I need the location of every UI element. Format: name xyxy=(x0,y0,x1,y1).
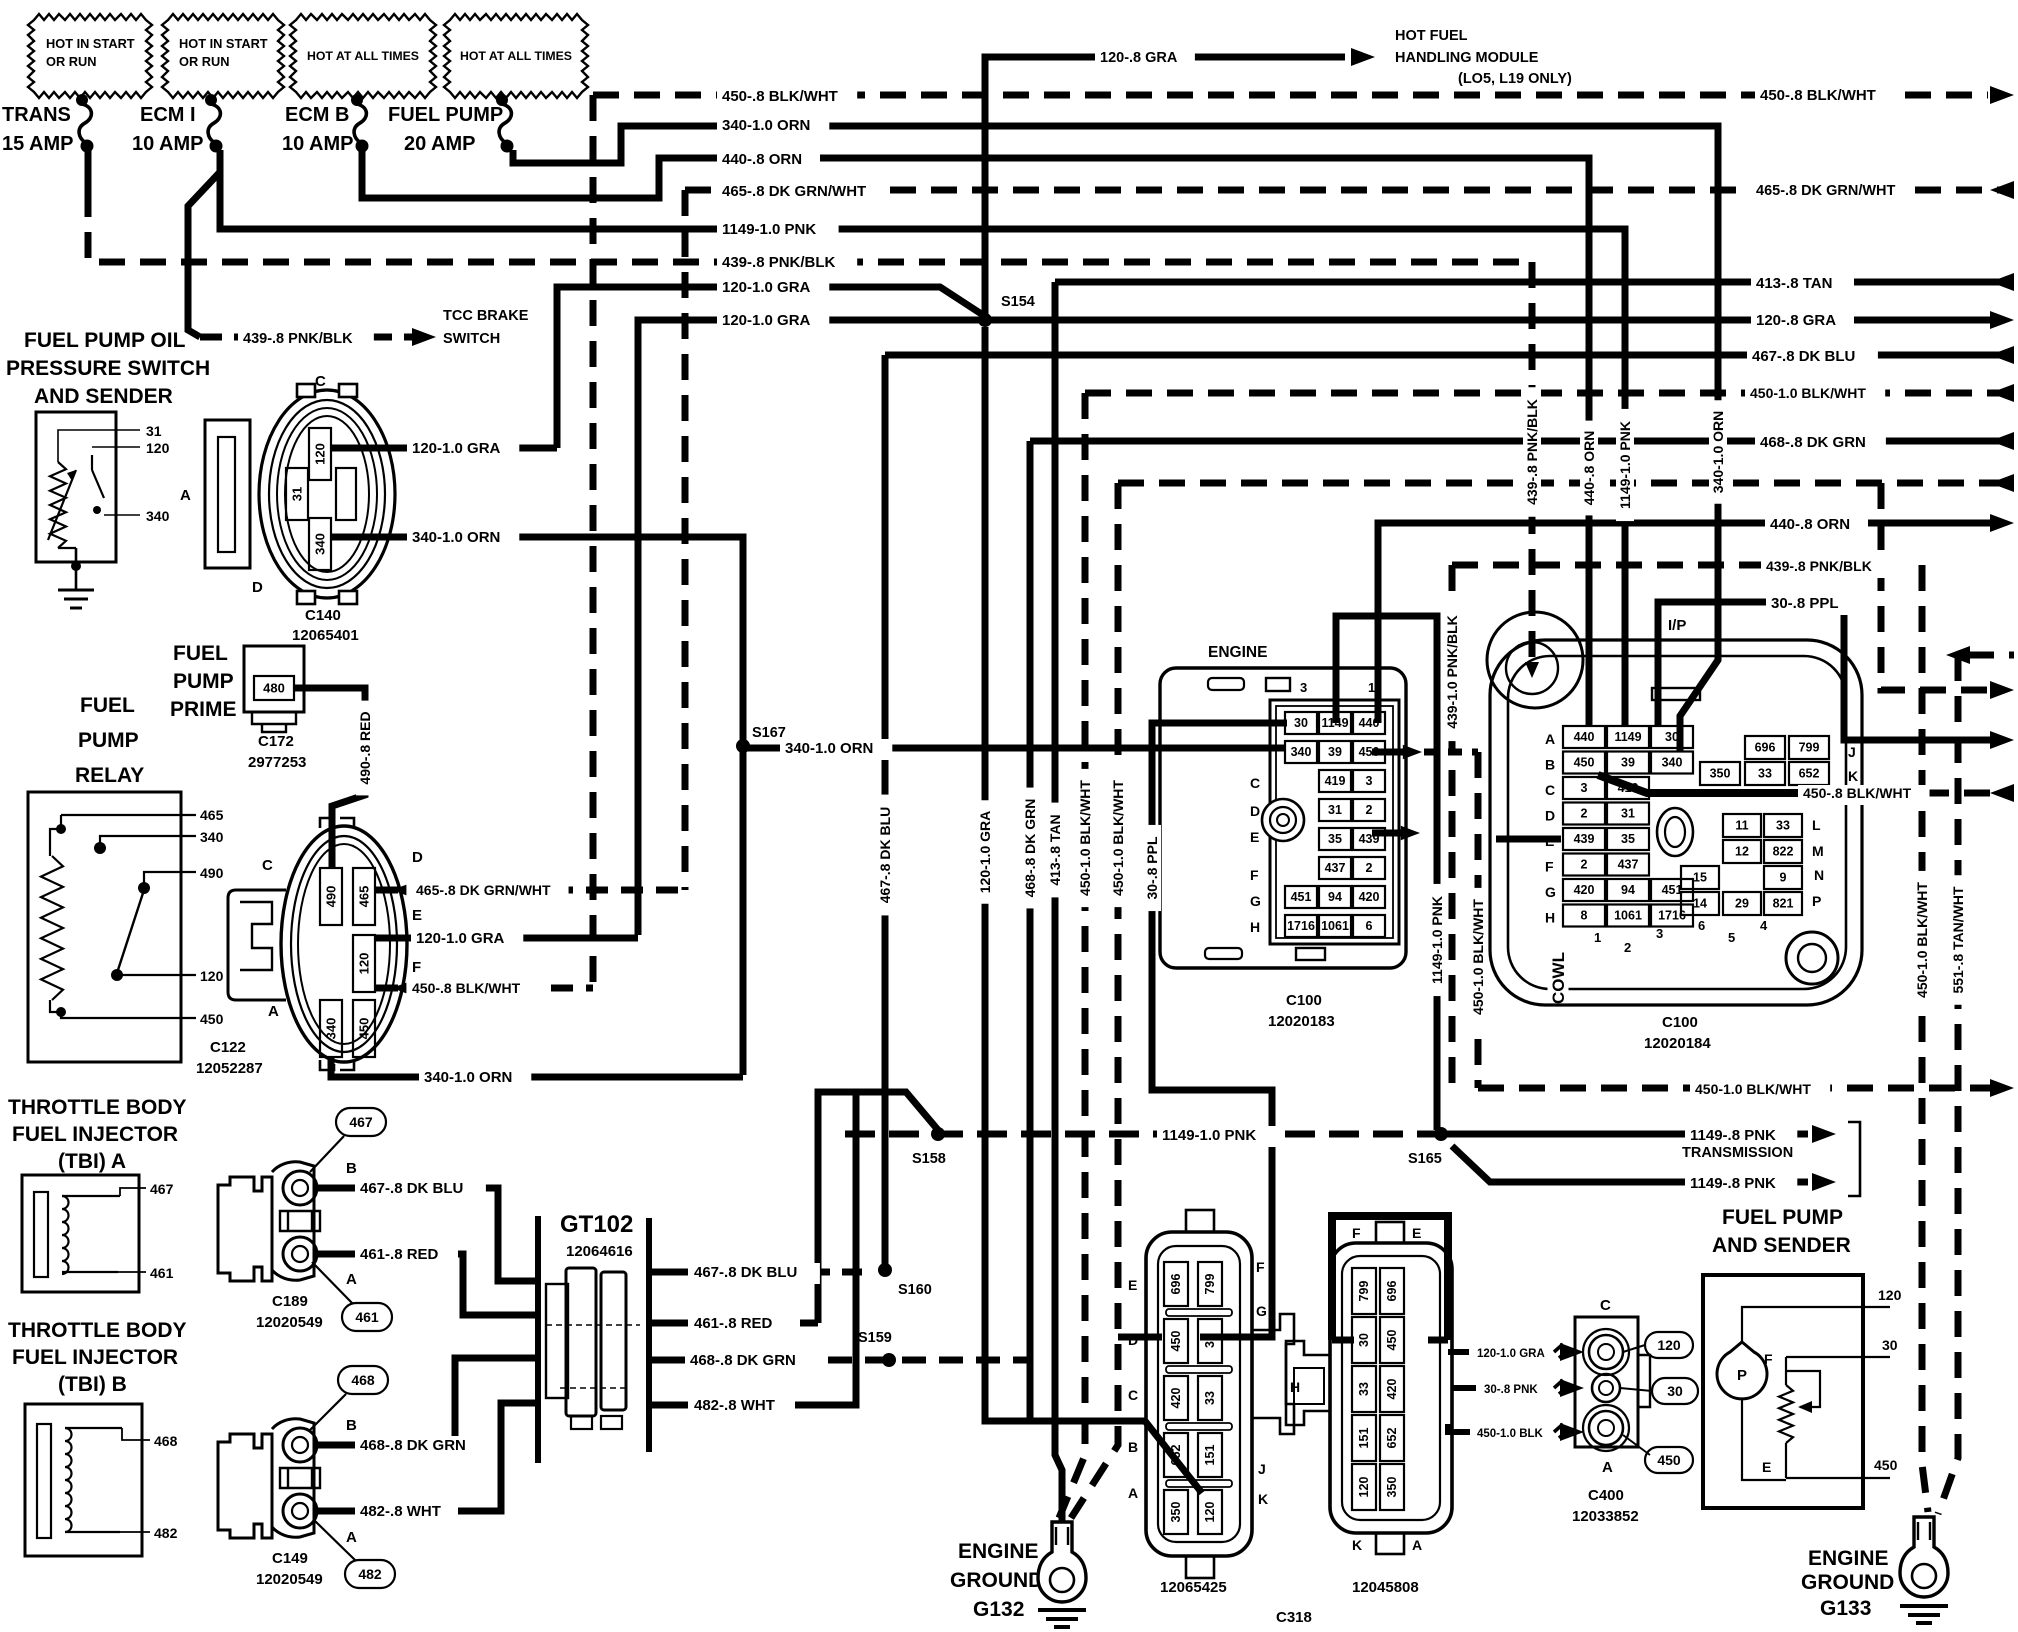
svg-text:OR RUN: OR RUN xyxy=(179,54,229,69)
wire 450-.8 BLK/WHT dashed vertical to C122 xyxy=(590,95,597,985)
C189 bubble 461 xyxy=(342,1303,392,1331)
svg-text:THROTTLE BODY: THROTTLE BODY xyxy=(8,1096,187,1119)
wire label 450-.8 BLK/WHT xyxy=(1798,785,1930,805)
svg-text:413-.8 TAN: 413-.8 TAN xyxy=(1756,275,1832,292)
svg-text:120-1.0 GRA: 120-1.0 GRA xyxy=(722,312,811,329)
svg-text:120-.8 GRA: 120-.8 GRA xyxy=(1100,50,1178,66)
svg-text:AND SENDER: AND SENDER xyxy=(1712,1234,1851,1257)
svg-text:B: B xyxy=(346,1417,357,1434)
svg-text:1149-1.0 PNK: 1149-1.0 PNK xyxy=(1429,896,1445,984)
GT102 stub 461-.8 RED xyxy=(649,1320,688,1327)
C140 pin 120 xyxy=(309,428,331,480)
svg-text:450-1.0 BLK/WHT: 450-1.0 BLK/WHT xyxy=(1470,899,1486,1015)
svg-text:30: 30 xyxy=(1667,1383,1683,1399)
wire label 465-.8 DK GRN/WHT xyxy=(717,182,885,203)
dashed riser 1881 xyxy=(1881,483,1990,690)
wire label 450-.8 BLK/WHT xyxy=(717,87,857,108)
svg-text:ECM B: ECM B xyxy=(285,104,349,126)
vertical wire label 467-.8 DK BLU xyxy=(876,795,894,916)
wire 468-.8 DK GRN vertical xyxy=(1027,441,1034,1421)
svg-text:HOT FUEL: HOT FUEL xyxy=(1395,28,1468,44)
vertical wire label COWL xyxy=(1548,953,1569,1003)
connector C400 xyxy=(1575,1317,1638,1447)
wire label 482-.8 WHT xyxy=(355,1502,458,1523)
svg-text:4: 4 xyxy=(1760,918,1768,933)
GT102 stub 468-.8 DK GRN xyxy=(649,1357,685,1364)
wire 340-1.0 ORN from C140 to S167 riser xyxy=(331,537,743,1075)
svg-text:350: 350 xyxy=(1385,1477,1399,1498)
svg-text:440: 440 xyxy=(1574,730,1595,744)
svg-text:468-.8 DK GRN: 468-.8 DK GRN xyxy=(1760,434,1866,451)
svg-text:2: 2 xyxy=(1624,940,1631,955)
svg-text:420: 420 xyxy=(1169,1388,1183,1409)
I-P pin grid left xyxy=(1563,726,1605,748)
svg-text:799: 799 xyxy=(1799,741,1820,755)
wire label 450-.8 BLK/WHT xyxy=(407,980,539,1000)
relay pin 120 xyxy=(111,969,123,981)
wire 450-1.0 BLK to C400 xyxy=(1448,1424,1470,1432)
svg-text:120: 120 xyxy=(1657,1337,1681,1353)
svg-text:A: A xyxy=(1128,1485,1138,1501)
svg-text:C172: C172 xyxy=(258,733,294,750)
svg-text:30: 30 xyxy=(1294,716,1308,730)
svg-text:3: 3 xyxy=(1300,680,1307,695)
svg-text:439-.8 PNK/BLK: 439-.8 PNK/BLK xyxy=(1524,399,1540,505)
wire label 1149-1.0 PNK xyxy=(717,220,839,241)
svg-text:340: 340 xyxy=(200,829,224,845)
svg-text:30-.8 PNK: 30-.8 PNK xyxy=(1484,1384,1538,1396)
svg-text:350: 350 xyxy=(1169,1502,1183,1523)
I-P connector C100 outline xyxy=(1490,640,1862,1005)
splice S158 xyxy=(931,1127,945,1141)
connector C172 xyxy=(244,646,304,712)
svg-text:696: 696 xyxy=(1169,1274,1183,1295)
I-P center bolt xyxy=(1657,808,1693,856)
vertical wire label 340-1.0 ORN xyxy=(1709,400,1727,503)
svg-text:120-1.0 GRA: 120-1.0 GRA xyxy=(416,930,505,947)
svg-text:COWL: COWL xyxy=(1549,952,1568,1004)
vertical wire label 1149-1.0 PNK xyxy=(1428,884,1446,996)
vertical wire label 468-.8 DK GRN xyxy=(1021,788,1039,909)
fuse box burst HOT AT ALL TIMES 1 xyxy=(290,14,436,98)
svg-text:G133: G133 xyxy=(1820,1597,1871,1620)
svg-text:1149-1.0 PNK: 1149-1.0 PNK xyxy=(1617,421,1633,509)
pump wiring to pin 120 xyxy=(1742,1307,1890,1344)
svg-text:439-.8 PNK/BLK: 439-.8 PNK/BLK xyxy=(1766,558,1872,574)
GT102 stub 482-.8 WHT xyxy=(649,1402,688,1409)
I-P mounting ear top left xyxy=(1487,612,1583,708)
wire label 482-.8 WHT xyxy=(689,1396,792,1417)
wire 450-.8 BLK/WHT dashed top xyxy=(593,92,1988,99)
fuse box burst HOT IN START OR RUN 1 xyxy=(28,14,152,98)
GT102 right bus bar xyxy=(646,1218,652,1452)
I-P top tab xyxy=(1652,688,1700,700)
svg-text:340-1.0 ORN: 340-1.0 ORN xyxy=(412,529,500,546)
wire label 468-.8 DK GRN xyxy=(355,1436,486,1457)
svg-text:K: K xyxy=(1352,1537,1362,1553)
C189 bubble 467 xyxy=(336,1108,386,1136)
wire 439-.8 PNK/BLK dashed right segment xyxy=(1452,562,1881,569)
wire 439 branch to TCC BRAKE SWITCH xyxy=(188,150,220,337)
svg-text:151: 151 xyxy=(1357,1428,1371,1449)
svg-text:A: A xyxy=(1412,1537,1422,1553)
wire 490-.8 RED xyxy=(294,688,365,868)
wire label 439-.8 PNK/BLK xyxy=(238,330,374,351)
svg-text:GROUND: GROUND xyxy=(1801,1571,1894,1594)
svg-text:OR RUN: OR RUN xyxy=(46,54,96,69)
svg-text:11: 11 xyxy=(1735,819,1748,833)
svg-text:467-.8 DK BLU: 467-.8 DK BLU xyxy=(877,807,893,903)
connector C149 xyxy=(218,1434,272,1538)
wire label 440-.8 ORN xyxy=(1765,515,1868,536)
svg-text:20 AMP: 20 AMP xyxy=(404,133,476,155)
wire label 450-1.0 BLK/WHT xyxy=(1745,385,1885,405)
relay pin 465 xyxy=(61,815,196,829)
svg-text:31: 31 xyxy=(146,423,162,439)
svg-text:420: 420 xyxy=(1359,890,1380,904)
svg-text:1149: 1149 xyxy=(1614,730,1641,744)
svg-text:2: 2 xyxy=(1581,807,1588,821)
svg-text:N: N xyxy=(1814,867,1824,883)
splice S160 xyxy=(878,1263,892,1277)
wire 468-.8 DK GRN from C149 xyxy=(317,1358,538,1445)
C172 pin 480 xyxy=(254,676,294,700)
svg-text:E: E xyxy=(412,907,422,924)
wire ECM B fuse to 440 xyxy=(362,150,1589,726)
ENGINE C100 outer shell xyxy=(1160,668,1406,968)
C122 pin 120 xyxy=(353,935,375,992)
svg-text:6: 6 xyxy=(1366,919,1373,933)
svg-text:FUEL PUMP: FUEL PUMP xyxy=(1722,1206,1843,1229)
vertical wire label 440-.8 ORN xyxy=(1580,421,1598,516)
wire 465-.8 DK GRN/WHT from C122 xyxy=(376,887,685,894)
svg-text:468: 468 xyxy=(154,1433,178,1449)
pins 31 120 340 of pressure switch xyxy=(58,430,140,515)
wire 450 from ENGINE pin 450 to dashed riser xyxy=(1372,749,1408,756)
svg-text:450: 450 xyxy=(1169,1331,1183,1352)
svg-text:120-1.0 GRA: 120-1.0 GRA xyxy=(977,811,993,893)
svg-text:450-.8 BLK/WHT: 450-.8 BLK/WHT xyxy=(412,980,521,996)
svg-text:420: 420 xyxy=(1574,883,1595,897)
svg-text:TRANS: TRANS xyxy=(2,104,71,126)
svg-text:480: 480 xyxy=(263,681,285,696)
variable resistor inside switch xyxy=(50,462,66,548)
svg-text:P: P xyxy=(1737,1367,1747,1384)
svg-text:E: E xyxy=(1128,1277,1137,1293)
fuse TRANS 15 AMP xyxy=(76,94,88,106)
svg-text:33: 33 xyxy=(1357,1382,1371,1396)
svg-text:E: E xyxy=(1250,829,1259,845)
vertical wire label 450-1.0 BLK/WHT xyxy=(1469,888,1487,1026)
svg-text:465: 465 xyxy=(200,807,224,823)
splice S159 xyxy=(882,1353,896,1367)
svg-text:120-.8 GRA: 120-.8 GRA xyxy=(1756,312,1836,329)
wire 450-1.0 BLK/WHT dashed right xyxy=(1085,390,2014,397)
svg-text:12033852: 12033852 xyxy=(1572,1508,1639,1525)
wire 340-1.0 ORN from C122 bottom xyxy=(331,1057,743,1077)
svg-text:1716: 1716 xyxy=(1287,919,1315,933)
svg-text:120-1.0 GRA: 120-1.0 GRA xyxy=(722,279,811,296)
svg-text:F: F xyxy=(412,959,421,976)
svg-text:(LO5, L19 ONLY): (LO5, L19 ONLY) xyxy=(1458,71,1572,87)
svg-text:490-.8 RED: 490-.8 RED xyxy=(357,711,373,784)
svg-text:821: 821 xyxy=(1773,897,1794,911)
wire 340-1.0 ORN from S167 to ENGINE C100 xyxy=(743,745,1285,752)
C400 bubble 450 xyxy=(1645,1447,1693,1473)
sender wiper arrow xyxy=(1786,1371,1820,1407)
wire 413-.8 TAN vertical xyxy=(1055,282,1062,1524)
G133 ground bars xyxy=(1900,1606,1948,1623)
sender variable resistor xyxy=(1779,1385,1793,1443)
svg-text:10 AMP: 10 AMP xyxy=(132,133,204,155)
vertical wire label 450-1.0 BLK/WHT xyxy=(1109,769,1127,907)
svg-text:35: 35 xyxy=(1621,832,1635,846)
svg-text:G132: G132 xyxy=(973,1598,1024,1621)
switch contact xyxy=(92,455,104,498)
svg-text:450: 450 xyxy=(1874,1457,1898,1473)
svg-text:467: 467 xyxy=(349,1114,373,1130)
wire 413-.8 TAN xyxy=(1055,279,2014,286)
wire 461-.8 RED from C189 xyxy=(317,1254,538,1315)
svg-text:12064616: 12064616 xyxy=(566,1243,633,1260)
wire label 450-.8 BLK/WHT xyxy=(1755,86,1895,107)
svg-text:10 AMP: 10 AMP xyxy=(282,133,354,155)
splice riser into C318 pin 450 xyxy=(1118,1334,1162,1341)
wire 465-.8 DK GRN/WHT dashed top xyxy=(685,187,2014,194)
svg-text:12020183: 12020183 xyxy=(1268,1013,1335,1030)
svg-text:J: J xyxy=(1258,1461,1266,1477)
svg-text:TRANSMISSION: TRANSMISSION xyxy=(1682,1145,1793,1161)
svg-text:C: C xyxy=(1545,782,1555,798)
svg-text:H: H xyxy=(1250,919,1260,935)
svg-text:340-1.0 ORN: 340-1.0 ORN xyxy=(424,1069,512,1086)
svg-text:482-.8 WHT: 482-.8 WHT xyxy=(694,1397,775,1414)
svg-text:HOT IN START: HOT IN START xyxy=(46,36,135,51)
ENGINE C100 bolt circle xyxy=(1262,799,1304,841)
svg-text:E: E xyxy=(1412,1225,1421,1241)
svg-text:C: C xyxy=(262,857,273,874)
svg-text:439-1.0 PNK/BLK: 439-1.0 PNK/BLK xyxy=(1444,615,1460,729)
svg-text:1149-1.0 PNK: 1149-1.0 PNK xyxy=(1162,1127,1256,1144)
connector C140 oval xyxy=(259,390,395,598)
svg-text:A: A xyxy=(346,1271,357,1288)
svg-text:450-1.0 BLK/WHT: 450-1.0 BLK/WHT xyxy=(1110,780,1126,896)
svg-text:F: F xyxy=(1250,867,1259,883)
wire label 120-1.0 GRA xyxy=(717,278,829,299)
svg-text:15 AMP: 15 AMP xyxy=(2,133,74,155)
svg-text:340-1.0 ORN: 340-1.0 ORN xyxy=(785,740,873,757)
svg-text:490: 490 xyxy=(200,865,224,881)
C149 bubble 482 xyxy=(345,1560,395,1588)
wire 30-.8 PPL from I-P pin 30 xyxy=(1658,602,1990,740)
svg-text:FUEL INJECTOR: FUEL INJECTOR xyxy=(12,1123,178,1146)
TBI B inner slot xyxy=(37,1424,51,1538)
svg-text:451: 451 xyxy=(1291,890,1312,904)
svg-text:6: 6 xyxy=(1698,918,1705,933)
wire 439-1.0 PNK/BLK dashed vertical xyxy=(1449,565,1456,1088)
svg-text:461-.8 RED: 461-.8 RED xyxy=(360,1246,439,1263)
svg-text:1061: 1061 xyxy=(1614,909,1642,923)
svg-text:HOT AT ALL TIMES: HOT AT ALL TIMES xyxy=(460,49,572,63)
GT102 stub 467-.8 DK BLU xyxy=(649,1269,688,1276)
svg-text:12020549: 12020549 xyxy=(256,1571,323,1588)
splice S165 xyxy=(1434,1127,1448,1141)
wire 450-1.0 BLK/WHT dashed bottom right xyxy=(1478,1085,1990,1092)
svg-text:419: 419 xyxy=(1325,774,1346,788)
svg-text:12065425: 12065425 xyxy=(1160,1579,1227,1596)
vertical wire label 439-.8 PNK/BLK xyxy=(1523,387,1541,517)
relay pin 340 xyxy=(94,842,106,854)
svg-text:F: F xyxy=(1352,1225,1361,1241)
svg-text:2: 2 xyxy=(1581,858,1588,872)
svg-text:120: 120 xyxy=(357,953,372,975)
G132 ground bars xyxy=(1038,1610,1086,1627)
dashed riser 1922 to G133 xyxy=(1922,565,1928,1512)
pump bottom to E xyxy=(1742,1400,1786,1480)
svg-text:A: A xyxy=(180,487,191,504)
splice S167 xyxy=(736,739,750,753)
pin 30 line xyxy=(1786,1356,1890,1358)
svg-text:FUEL: FUEL xyxy=(80,694,135,717)
relay pin 450 xyxy=(61,1012,196,1018)
svg-text:450: 450 xyxy=(1574,756,1595,770)
I-P pin grid right lower xyxy=(1723,814,1761,837)
wire 120-1.0 GRA riser below S154 xyxy=(985,327,1145,1421)
vertical wire label 413-.8 TAN xyxy=(1046,803,1064,898)
fuse box burst HOT AT ALL TIMES 2 xyxy=(444,14,588,98)
fuel pump and sender box xyxy=(1703,1275,1863,1508)
TBI A box xyxy=(22,1175,139,1292)
wire 467 dashed to S160 xyxy=(810,1269,862,1276)
wire 440 vertical from ENGINE pin 440 up to 440-.8 ORN xyxy=(1378,523,1990,723)
C140 left latch block xyxy=(205,420,250,568)
svg-text:15: 15 xyxy=(1693,871,1707,885)
svg-text:340: 340 xyxy=(1291,745,1312,759)
svg-text:B: B xyxy=(346,1160,357,1177)
svg-text:1149-1.0 PNK: 1149-1.0 PNK xyxy=(722,221,816,238)
relay pin 490 + switch arm xyxy=(138,882,150,894)
svg-text:120: 120 xyxy=(1878,1287,1902,1303)
wire 461-.8 RED riser to S158 xyxy=(818,1092,938,1323)
svg-text:1: 1 xyxy=(1594,930,1601,945)
svg-text:465-.8 DK GRN/WHT: 465-.8 DK GRN/WHT xyxy=(1756,183,1896,199)
svg-text:(TBI) B: (TBI) B xyxy=(58,1373,127,1396)
svg-text:H: H xyxy=(1545,910,1555,926)
svg-text:31: 31 xyxy=(1328,803,1342,817)
svg-text:K: K xyxy=(1848,768,1858,784)
svg-text:C: C xyxy=(315,373,326,390)
svg-text:A: A xyxy=(1545,731,1555,747)
svg-text:1: 1 xyxy=(1368,680,1375,695)
svg-text:C140: C140 xyxy=(305,607,341,624)
wire 450-1.0 BLK/WHT dashed vertical 2 xyxy=(1071,483,1118,1518)
GT102 grommet body xyxy=(566,1268,596,1416)
wire label 440-.8 ORN xyxy=(717,150,820,171)
svg-text:822: 822 xyxy=(1773,845,1794,859)
wire 482-.8 WHT from C149 xyxy=(317,1403,538,1511)
svg-text:467-.8 DK BLU: 467-.8 DK BLU xyxy=(694,1264,797,1281)
svg-text:440-.8 ORN: 440-.8 ORN xyxy=(1770,516,1850,533)
svg-text:HOT AT ALL TIMES: HOT AT ALL TIMES xyxy=(307,49,419,63)
C122 pin 450 xyxy=(353,1000,375,1057)
svg-text:L: L xyxy=(1812,817,1821,833)
wire 1149-.8 PNK lower to TRANSMISSION xyxy=(1452,1146,1808,1182)
wire 439 from ENGINE pin 439 xyxy=(1372,830,1408,837)
svg-text:39: 39 xyxy=(1621,756,1635,770)
svg-text:440-.8 ORN: 440-.8 ORN xyxy=(722,151,802,168)
wire 30-.8 PPL from ENGINE pin 30 xyxy=(1152,723,1287,1337)
svg-text:31: 31 xyxy=(1621,807,1635,821)
svg-text:465-.8 DK GRN/WHT: 465-.8 DK GRN/WHT xyxy=(416,882,551,898)
svg-text:12045808: 12045808 xyxy=(1352,1579,1419,1596)
svg-text:9: 9 xyxy=(1780,871,1787,885)
wire 120-.8 GRA right xyxy=(985,317,1990,324)
wire 120-1.0 GRA C122 riser to S154 xyxy=(638,320,985,935)
svg-text:120: 120 xyxy=(146,440,170,456)
svg-text:ENGINE: ENGINE xyxy=(1808,1547,1889,1570)
svg-text:120-1.0 GRA: 120-1.0 GRA xyxy=(1477,1348,1545,1360)
svg-text:439: 439 xyxy=(1574,832,1595,846)
svg-text:8: 8 xyxy=(1581,909,1588,923)
svg-text:I/P: I/P xyxy=(1668,617,1686,634)
svg-text:PUMP: PUMP xyxy=(78,729,139,752)
fuel pump oil pressure switch box xyxy=(36,412,116,562)
vertical wire label 1149-1.0 PNK xyxy=(1616,409,1634,521)
C122 pin 490 xyxy=(320,868,342,925)
svg-text:FUEL PUMP OIL: FUEL PUMP OIL xyxy=(24,329,186,352)
svg-text:482: 482 xyxy=(154,1525,178,1541)
svg-text:467-.8 DK BLU: 467-.8 DK BLU xyxy=(1752,348,1855,365)
fuse ECM B 10 AMP xyxy=(351,94,363,106)
svg-text:467-.8 DK BLU: 467-.8 DK BLU xyxy=(360,1180,463,1197)
svg-text:450-.8 BLK/WHT: 450-.8 BLK/WHT xyxy=(1760,87,1876,104)
svg-text:PRESSURE SWITCH: PRESSURE SWITCH xyxy=(6,357,210,380)
wire 467-.8 DK BLU horizontal right xyxy=(885,352,2014,359)
wire label 340-1.0 ORN xyxy=(419,1068,531,1089)
svg-text:652: 652 xyxy=(1799,767,1820,781)
wire label 439-.8 PNK/BLK xyxy=(717,253,857,274)
wire into C318 pin 30 from right xyxy=(1200,1334,1225,1341)
svg-text:K: K xyxy=(1258,1491,1268,1507)
svg-text:799: 799 xyxy=(1203,1274,1217,1295)
svg-text:E: E xyxy=(1545,833,1554,849)
svg-text:468-.8 DK GRN: 468-.8 DK GRN xyxy=(360,1437,466,1454)
wire label 465-.8 DK GRN/WHT xyxy=(411,882,569,902)
wire 450-1.0 BLK/WHT dashed 2 xyxy=(1118,480,2014,487)
svg-text:PRIME: PRIME xyxy=(170,698,237,721)
svg-text:482: 482 xyxy=(358,1566,382,1582)
svg-text:S165: S165 xyxy=(1408,1151,1442,1167)
wire 1149-1.0 PNK horizontal through S158 S165 xyxy=(845,1131,1441,1138)
wire label 120-1.0 GRA xyxy=(717,311,829,332)
C140 pin 31 xyxy=(286,468,308,520)
wire label 30-.8 PPL xyxy=(1766,594,1860,615)
svg-text:450-.8 BLK/WHT: 450-.8 BLK/WHT xyxy=(722,88,838,105)
wire 120-.8 GRA to HOT FUEL HANDLING MODULE xyxy=(985,57,1345,320)
svg-text:94: 94 xyxy=(1328,890,1342,904)
wire label 461-.8 RED xyxy=(355,1245,458,1266)
svg-text:30-.8 PPL: 30-.8 PPL xyxy=(1144,836,1160,899)
svg-text:F: F xyxy=(1256,1259,1265,1275)
svg-text:D: D xyxy=(1545,808,1555,824)
svg-text:461: 461 xyxy=(355,1309,379,1325)
svg-text:30-.8 PPL: 30-.8 PPL xyxy=(1771,595,1839,612)
wire 30-.8 PNK to C400 xyxy=(1452,1385,1476,1391)
svg-text:H: H xyxy=(1290,1379,1300,1395)
svg-text:340: 340 xyxy=(313,533,328,555)
svg-text:468-.8 DK GRN: 468-.8 DK GRN xyxy=(690,1352,796,1369)
svg-text:E: E xyxy=(1762,1459,1771,1475)
